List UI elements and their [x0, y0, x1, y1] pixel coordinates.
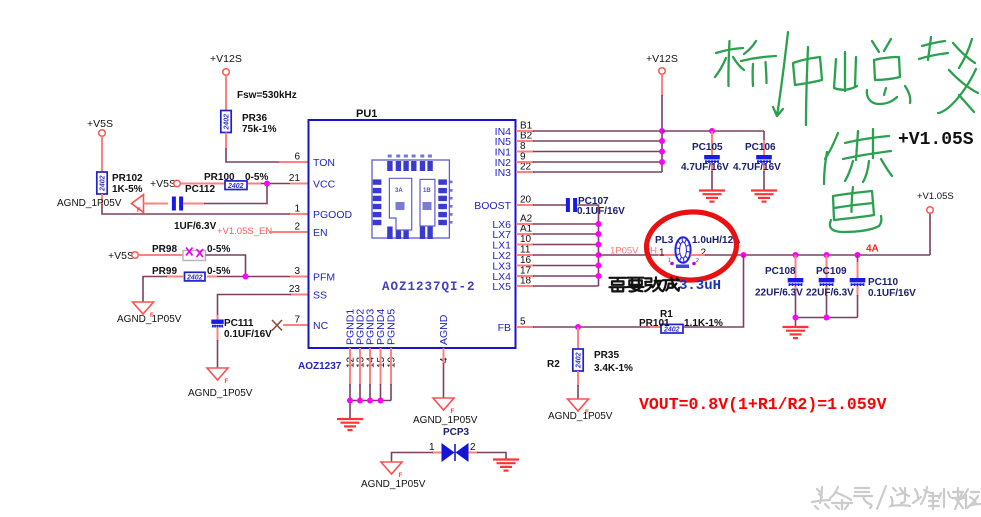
svg-text:IN3: IN3 — [495, 167, 512, 179]
wire FB pin5 to divider — [516, 326, 650, 328]
svg-text:F: F — [225, 379, 229, 385]
svg-text:VCC: VCC — [313, 178, 336, 190]
wire PR36 to TON pin6 — [226, 133, 308, 163]
svg-text:1UF/6.3V: 1UF/6.3V — [174, 221, 217, 232]
svg-text:TON: TON — [313, 157, 335, 169]
capacitor PC109 — [806, 255, 854, 318]
svg-text:EN: EN — [313, 227, 328, 239]
svg-text:AGND: AGND — [438, 314, 450, 345]
svg-text:2402: 2402 — [186, 275, 203, 282]
wire PCP3 pin1 to AGND — [392, 453, 442, 463]
junction PGND bus dots — [347, 398, 384, 404]
svg-text:0-5%: 0-5% — [207, 266, 230, 277]
svg-text:10: 10 — [520, 234, 532, 245]
wire LX bus to PL3 — [599, 254, 676, 256]
svg-text:2: 2 — [470, 442, 476, 453]
power port +V5S (lower) — [108, 250, 138, 262]
svg-text:2402: 2402 — [224, 114, 231, 131]
svg-text:AGND_1P05V: AGND_1P05V — [188, 388, 253, 399]
svg-text:PC112: PC112 — [185, 184, 215, 195]
svg-text:PFM: PFM — [313, 271, 335, 283]
earth ground PGND — [337, 419, 363, 430]
formula VOUT text — [639, 395, 887, 414]
wire AGND pin4 to ground — [443, 348, 445, 398]
svg-text:3.4K-1%: 3.4K-1% — [594, 363, 633, 374]
svg-text:1K-5%: 1K-5% — [112, 184, 143, 195]
svg-text:PCP3: PCP3 — [443, 427, 470, 438]
wire PR102 to PGOOD pin1 — [102, 194, 308, 214]
junction LX bus dots — [596, 221, 602, 279]
svg-text:B2: B2 — [520, 131, 533, 142]
resistor PR36 — [221, 111, 277, 136]
svg-text:0.1UF/16V: 0.1UF/16V — [224, 329, 272, 340]
svg-text:PR35: PR35 — [594, 350, 619, 361]
svg-text:BOOST: BOOST — [474, 200, 511, 212]
net label 1P05V_PH — [610, 246, 657, 257]
wire BOOST pin20 to PC107 — [516, 204, 566, 206]
annotation red circle around PL3 — [645, 210, 738, 283]
diode PCP3 — [429, 427, 476, 462]
wire PR99 left to AGND — [143, 277, 184, 303]
wire PR35 to ground — [577, 371, 579, 399]
power port +V12S (left) — [210, 53, 242, 75]
svg-text:FB: FB — [498, 322, 511, 334]
junction IN bus dots — [659, 128, 665, 165]
resistor PR101 R1 — [639, 309, 723, 334]
IC PU1 internal footprint drawing — [372, 155, 453, 240]
svg-text:PC105: PC105 — [692, 142, 723, 153]
capacitor PC110 — [850, 255, 916, 318]
svg-text:PU1: PU1 — [356, 108, 377, 120]
svg-text:0.1UF/16V: 0.1UF/16V — [868, 288, 916, 299]
svg-text:1B: 1B — [423, 188, 431, 194]
svg-text:PR101: PR101 — [639, 318, 670, 329]
svg-text:2402: 2402 — [227, 183, 244, 190]
svg-text:0-5%: 0-5% — [207, 244, 230, 255]
resistor PR99 — [152, 266, 230, 282]
resistor PR98 (DNP) — [152, 244, 230, 261]
svg-text:+V1.05S: +V1.05S — [917, 191, 954, 202]
capacitor PC105 — [681, 131, 729, 190]
svg-text:PR36: PR36 — [242, 113, 267, 124]
inductor PL3 — [655, 235, 740, 268]
earth ground PC106 — [751, 191, 777, 202]
net label 4A — [866, 244, 879, 255]
svg-text:NC: NC — [313, 320, 329, 332]
earth ground output caps — [783, 327, 809, 338]
svg-text:PGOOD: PGOOD — [313, 209, 353, 221]
junction PFM node — [243, 274, 249, 280]
svg-text:+V5S: +V5S — [150, 178, 176, 190]
svg-text:2: 2 — [696, 258, 699, 264]
wires IN pins to +V12S bus — [516, 131, 662, 172]
svg-text:18: 18 — [520, 276, 532, 287]
svg-text:A1: A1 — [520, 224, 533, 235]
wire PR100 to VCC pin21 — [248, 183, 308, 185]
svg-text:1: 1 — [429, 442, 435, 453]
svg-text:6: 6 — [294, 152, 300, 163]
svg-text:5: 5 — [520, 317, 526, 328]
net label +V1.05S_EN and EN stub pin2 — [217, 226, 308, 237]
svg-text:4.7UF/16V: 4.7UF/16V — [681, 162, 729, 173]
svg-text:PC106: PC106 — [745, 142, 776, 153]
svg-text:20: 20 — [520, 195, 532, 206]
svg-text:PR102: PR102 — [112, 173, 143, 184]
IC PU1 right pin names and numbers — [474, 121, 532, 334]
capacitor PC106 — [733, 140, 781, 190]
svg-text:AOZ1237: AOZ1237 — [298, 361, 342, 372]
svg-text:16: 16 — [520, 255, 532, 266]
svg-text:+V5S: +V5S — [108, 250, 134, 262]
power port +V5S (mid) — [150, 178, 180, 190]
wire PR98 to PFM junction — [206, 255, 246, 277]
svg-text:AGND_1P05V: AGND_1P05V — [548, 411, 613, 422]
svg-text:PC109: PC109 — [816, 266, 847, 277]
svg-text:+V1.05S: +V1.05S — [898, 130, 974, 150]
earth ground PCP3 — [493, 460, 519, 471]
annotation 需要改成 (black) — [610, 277, 680, 291]
svg-text:+V5S: +V5S — [87, 118, 113, 130]
svg-text:22UF/6.3V: 22UF/6.3V — [806, 288, 854, 299]
ground AGND_1P05V (R2) — [548, 399, 613, 422]
wires PGND pins to ground bus — [350, 348, 391, 418]
svg-text:22UF/6.3V: 22UF/6.3V — [755, 288, 803, 299]
wire PL3 to +V1.05S rail — [691, 254, 931, 256]
svg-text:11: 11 — [520, 245, 531, 256]
svg-text:LX5: LX5 — [492, 281, 511, 293]
wire +V5S to PR102 — [101, 136, 103, 172]
svg-text:4.7UF/16V: 4.7UF/16V — [733, 162, 781, 173]
svg-text:+V1.05S_EN: +V1.05S_EN — [217, 226, 272, 237]
svg-text:AGND_1P05V: AGND_1P05V — [57, 198, 122, 209]
svg-text:PC108: PC108 — [765, 266, 796, 277]
op-amp / regulator IC PU1 AOZ1237QI-2 — [309, 108, 516, 348]
wire output cap ground bus — [796, 318, 858, 327]
svg-text:2402: 2402 — [576, 352, 583, 369]
label Fsw=530kHz — [237, 90, 297, 101]
wire PR101 to +V1.05S rail — [684, 255, 744, 327]
svg-text:2402: 2402 — [100, 175, 107, 192]
capacitor PC107 — [566, 196, 625, 217]
resistor PR100 — [204, 172, 268, 190]
svg-text:AGND_1P05V: AGND_1P05V — [413, 415, 478, 426]
svg-text:VOUT=0.8V(1+R1/R2)=1.059V: VOUT=0.8V(1+R1/R2)=1.059V — [639, 395, 887, 414]
wires LX pins to bus — [516, 224, 599, 286]
wire PC112 to VCC junction — [184, 184, 268, 204]
ground AGND_1P05V (pin4) — [413, 398, 478, 426]
ground AGND_1P05V (PCP3) — [361, 462, 426, 490]
power port +V1.05S — [917, 191, 954, 255]
wire +V12S to PR36 — [225, 75, 227, 110]
svg-text:1: 1 — [668, 258, 671, 264]
junction output rail dots — [741, 252, 861, 258]
wire +V5S to PR100 — [180, 183, 225, 185]
svg-text:3.3uH: 3.3uH — [679, 278, 721, 294]
capacitor PC111 — [211, 318, 272, 340]
svg-text:PR98: PR98 — [152, 244, 177, 255]
svg-text:8: 8 — [520, 141, 526, 152]
svg-text:Fsw=530kHz: Fsw=530kHz — [237, 90, 297, 101]
svg-text:2: 2 — [701, 248, 707, 259]
wire SS pin23 to PC111 — [218, 295, 309, 320]
svg-text:+V12S: +V12S — [210, 53, 242, 65]
power port +V12S (right) — [646, 53, 678, 74]
svg-text:7: 7 — [294, 315, 300, 326]
junction input cap node — [709, 128, 715, 134]
svg-text:1: 1 — [659, 248, 665, 259]
svg-text:PGND5: PGND5 — [386, 309, 398, 345]
annotation 3.3uH (blue) — [679, 278, 721, 294]
wire PR99 to PFM pin3 — [207, 276, 308, 278]
svg-text:R2: R2 — [547, 359, 560, 370]
junction FB node — [575, 324, 581, 330]
IC PU1 bottom pin names PGND1-5, AGND and numbers — [298, 309, 450, 372]
svg-text:AOZ1237QI-2: AOZ1237QI-2 — [382, 280, 476, 294]
wire +V12S down to IN bus — [661, 74, 663, 131]
svg-text:SS: SS — [313, 289, 327, 301]
earth ground PC105 — [699, 191, 725, 202]
junction VCC node — [264, 181, 270, 187]
wire PC111 to ground — [217, 328, 219, 369]
svg-text:1: 1 — [294, 204, 300, 215]
svg-text:75k-1%: 75k-1% — [242, 124, 277, 135]
svg-text:+V12S: +V12S — [646, 53, 678, 65]
svg-text:AGND_1P05V: AGND_1P05V — [361, 479, 426, 490]
svg-text:3: 3 — [294, 266, 300, 277]
svg-text:F: F — [137, 208, 141, 214]
wire PCP3 pin2 to earth — [469, 453, 507, 460]
capacitor PC108 — [755, 255, 803, 318]
svg-text:PR100: PR100 — [204, 172, 235, 183]
wire +V5S to PR98 — [138, 254, 183, 256]
resistor PR35 R2 — [547, 327, 633, 374]
svg-text:0.1UF/16V: 0.1UF/16V — [577, 206, 625, 217]
label +V1.05S (large) — [898, 130, 974, 150]
AGND_1P05V port (left arrow) — [57, 195, 144, 215]
svg-text:PL3: PL3 — [655, 235, 674, 246]
wire +V12S bus to input caps — [662, 131, 764, 141]
svg-text:PC110: PC110 — [868, 277, 898, 288]
ground AGND_1P05V (PC111) — [188, 368, 253, 399]
svg-text:22: 22 — [520, 162, 532, 173]
wire PC107 to LX bus — [578, 205, 599, 224]
junction cap bus dots — [793, 315, 830, 321]
IC PU1 left pin names and numbers — [289, 152, 353, 332]
svg-text:AGND_1P05V: AGND_1P05V — [117, 314, 182, 325]
power port +V5S (top left) — [87, 118, 113, 136]
svg-text:2: 2 — [294, 222, 300, 233]
capacitor PC112 — [172, 184, 217, 232]
watermark 头条号/迅维快修 — [812, 486, 980, 509]
svg-text:21: 21 — [289, 173, 301, 184]
annotation green handwriting 桥/中山总线 供电 — [715, 32, 978, 232]
svg-text:4A: 4A — [866, 244, 879, 255]
ground AGND_1P05V (PR99) — [117, 302, 182, 325]
svg-text:PR99: PR99 — [152, 266, 177, 277]
resistor PR102 — [97, 172, 143, 195]
NC pin7 stub with no-connect X — [272, 320, 308, 331]
svg-text:PC111: PC111 — [224, 318, 254, 329]
svg-text:3A: 3A — [395, 188, 403, 194]
wire AGND arrow to PC112 — [144, 203, 169, 205]
svg-text:23: 23 — [289, 284, 301, 295]
